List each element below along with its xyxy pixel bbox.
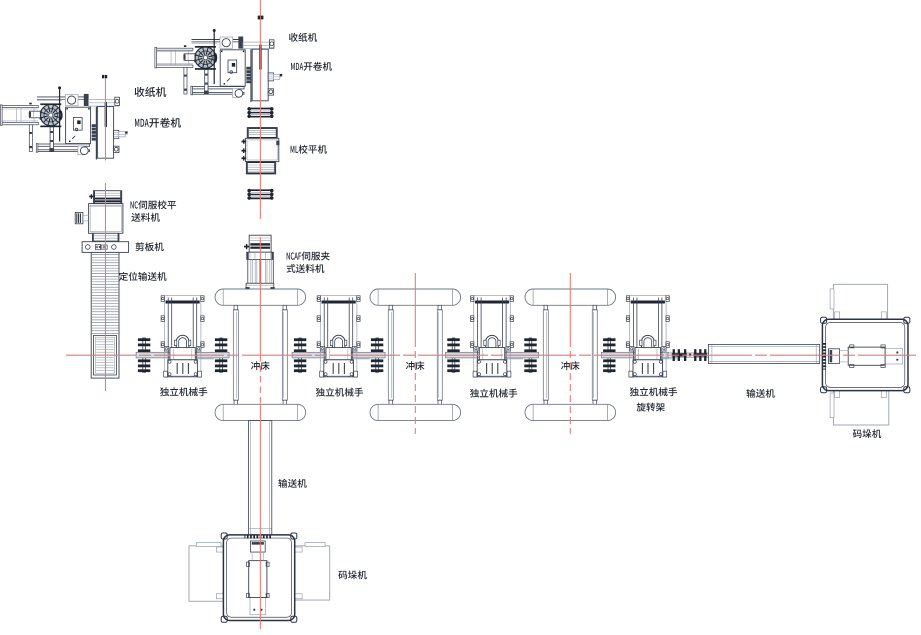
label 独立机械手 (manipulator 3) — [470, 389, 517, 398]
feed comb left of manipulator 2 — [292, 338, 306, 372]
label 送料机 — [131, 213, 159, 222]
label 旋转架 — [637, 403, 665, 412]
manipulator 4 transfer arm — [601, 352, 679, 359]
centerline vertical main column (uncoiler B / ML / press 1 / palletizer) — [259, 0, 261, 629]
manipulator 2 frame — [317, 296, 360, 378]
manipulator 4 pivot bearing — [640, 335, 656, 347]
press 2 top crown (capsule) — [370, 289, 461, 305]
manipulator 2 carriage — [320, 346, 357, 359]
pinch roller below ML leveler — [248, 189, 274, 200]
positioning conveyor — [91, 252, 119, 378]
label ML校平机 — [291, 145, 327, 154]
manipulator 3 pivot bearing — [484, 335, 500, 347]
manipulator 1 transfer arm — [136, 352, 229, 359]
label MDA开卷机 (uncoiler A) — [135, 118, 181, 128]
label 独立机械手 (manipulator 2) — [316, 388, 363, 397]
conveyor to palletizer (right) — [708, 344, 819, 363]
label NCAF伺服夹 — [287, 251, 330, 260]
feed comb left of manipulator 3 — [446, 338, 460, 372]
manipulator 4 frame — [626, 296, 669, 378]
uncoiler machine B (with coil car and winder) — [155, 29, 282, 102]
feed comb left of manipulator 1 — [136, 338, 150, 372]
label 收纸机 (uncoiler B) — [289, 33, 317, 42]
manipulator 2 lower gripper box — [324, 360, 354, 377]
label 码垛机 (bottom) — [338, 570, 366, 579]
palletizer bottom — [189, 533, 330, 622]
feed comb left of manipulator 4 — [602, 338, 616, 372]
label 收纸机 (uncoiler A) — [135, 87, 167, 97]
label 剪板机 — [136, 242, 164, 251]
label NC伺服校平 — [130, 200, 176, 209]
manipulator 3 transfer arm — [446, 352, 539, 359]
centerline vertical left column (uncoiler A / NC feeder) — [104, 75, 106, 391]
press 3 columns — [543, 305, 597, 404]
feed comb right of manipulator 2 — [369, 338, 383, 372]
label 冲床 (press 1) — [251, 361, 270, 370]
manipulator 3 frame — [471, 296, 514, 378]
palletizer right — [821, 284, 910, 425]
manipulator 3 carriage — [474, 346, 511, 359]
pinch roller above ML leveler — [248, 107, 274, 118]
manipulator 4 carriage — [630, 346, 667, 359]
NCAF servo clamp feeder — [244, 235, 275, 289]
drive shaft to conveyor — [668, 353, 709, 357]
manipulator 1 frame — [161, 296, 204, 378]
NC servo leveling feeder — [75, 191, 123, 241]
manipulator 4 lower gripper box — [633, 360, 663, 377]
label 输送机 (right) — [746, 389, 774, 398]
shear machine — [82, 242, 129, 253]
press 3 bottom crown (capsule) — [525, 404, 616, 420]
feed comb right of manipulator 1 — [213, 338, 227, 372]
label 冲床 (press 3) — [561, 361, 580, 370]
press 1 bottom crown (capsule) — [215, 404, 306, 420]
feed comb right of manipulator 3 — [523, 338, 537, 372]
centerline vertical press 3 — [569, 273, 571, 434]
press 3 top crown (capsule) — [525, 289, 616, 305]
centerline vertical press 2 — [414, 273, 416, 434]
label MDA开卷机 (uncoiler B) — [291, 62, 332, 71]
shaft coupling center link — [689, 354, 691, 357]
press 1 columns — [233, 305, 287, 404]
manipulator 1 carriage — [164, 346, 201, 359]
ML leveler machine — [242, 128, 280, 175]
break tick on centerline above uncoiler B — [258, 16, 264, 20]
manipulator 2 pivot bearing — [330, 335, 346, 347]
label 独立机械手 (manipulator 4) — [630, 387, 677, 396]
press 2 columns — [388, 305, 442, 404]
break tick on centerline above uncoiler A — [102, 75, 107, 78]
label 独立机械手 (manipulator 1) — [160, 387, 207, 396]
label 冲床 (press 2) — [406, 361, 425, 370]
manipulator 2 transfer arm — [292, 352, 385, 359]
press 2 bottom crown (capsule) — [370, 404, 461, 420]
conveyor to palletizer (bottom) — [248, 421, 271, 536]
label 码垛机 (right) — [853, 429, 881, 438]
manipulator 1 lower gripper box — [168, 360, 198, 377]
shaft couplings group 2 — [694, 349, 708, 361]
label 式送料机 — [287, 264, 325, 273]
manipulator 3 lower gripper box — [477, 360, 507, 377]
label 定位输送机 — [119, 272, 167, 281]
label 输送机 (bottom) — [278, 479, 306, 488]
shaft couplings group 1 — [672, 349, 687, 361]
uncoiler machine A (with coil car and winder) — [0, 87, 127, 160]
press 1 top crown (capsule) — [215, 289, 306, 305]
centerline horizontal main press line — [66, 354, 916, 356]
manipulator 1 pivot bearing — [174, 335, 190, 347]
